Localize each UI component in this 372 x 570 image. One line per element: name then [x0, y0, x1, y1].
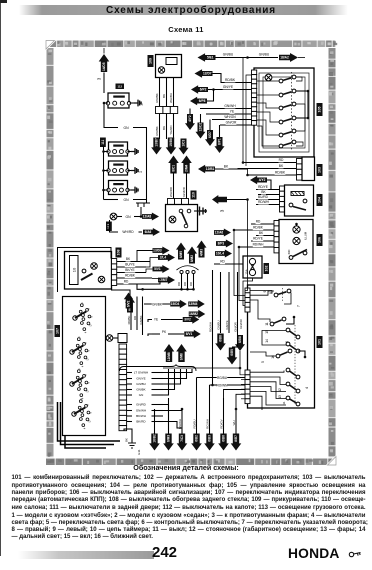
wires below connector of 109 — [159, 114, 161, 140]
wire WH/RD to dome light — [173, 174, 175, 200]
svg-text:GN/WH: GN/WH — [224, 104, 236, 108]
svg-text:D: D — [88, 324, 92, 326]
svg-text:107: 107 — [55, 328, 59, 334]
wire GN/OR — [220, 124, 252, 126]
svg-text:RD/BK: RD/BK — [155, 126, 159, 135]
label 108 — [116, 248, 122, 258]
svg-text:7/C3: 7/C3 — [180, 435, 184, 442]
svg-text:RD: RD — [189, 282, 193, 286]
svg-text:P: P — [77, 368, 81, 370]
svg-text:2/L4: 2/L4 — [160, 256, 167, 260]
inline connector of 110 — [168, 199, 175, 205]
wires from 101 lower ladder to loom verticals — [224, 390, 246, 399]
svg-text:N: N — [89, 412, 93, 414]
label 101 — [317, 336, 323, 348]
lamp 113 cargo area light — [110, 213, 117, 220]
connector arrow 8/C1 up — [168, 156, 179, 174]
ground a — [128, 151, 132, 153]
svg-text:P: P — [77, 336, 81, 338]
ground E11 — [124, 429, 132, 443]
svg-text:RD: RD — [256, 220, 261, 224]
cigarette lighter 109 — [156, 55, 182, 78]
connector arrow 4/Y2 left — [250, 176, 267, 185]
svg-text:7: 7 — [297, 305, 301, 307]
wires RD BK RD/BK to 103 — [243, 162, 296, 164]
wire YE — [206, 113, 252, 115]
wire WH/GN — [212, 119, 252, 121]
dome light 110 — [166, 205, 198, 232]
svg-text:6/B3: 6/B3 — [208, 435, 212, 442]
svg-text:BK: BK — [162, 126, 166, 130]
svg-text:12/B1: 12/B1 — [206, 167, 215, 171]
arrow 6/V2 up at 107 — [124, 293, 133, 309]
svg-text:GN/OR: GN/OR — [226, 121, 237, 125]
connector arrow 8/P1 down — [214, 137, 224, 153]
connector arrow 15/D4 right — [170, 300, 187, 309]
svg-text:12/C2: 12/C2 — [199, 123, 203, 132]
thick loom loops under 107 — [58, 402, 121, 441]
contacts of 101 lower — [286, 328, 290, 332]
svg-text:6/B2: 6/B2 — [195, 435, 199, 442]
svg-text:6/B5: 6/B5 — [230, 349, 234, 356]
ground c — [128, 189, 132, 191]
svg-text:11: 11 — [282, 401, 286, 404]
connector ladder of 108 — [112, 259, 117, 264]
junction at relay 112 input — [104, 102, 109, 104]
connector arrow 6/B8 down mid — [215, 334, 226, 351]
svg-text:D: D — [87, 420, 91, 422]
svg-text:RD/BK: RD/BK — [127, 316, 131, 325]
svg-text:RO/WH: RO/WH — [209, 322, 213, 332]
svg-text:105: 105 — [318, 107, 322, 113]
lower ladder of 101 — [245, 370, 250, 375]
svg-text:RD/GV: RD/GV — [220, 419, 224, 428]
wrap wire around 108 — [58, 248, 112, 293]
svg-text:RD/BK: RD/BK — [253, 226, 264, 230]
connector arrow 12/C2 down — [195, 123, 205, 139]
svg-text:6/M3: 6/M3 — [167, 435, 171, 442]
svg-text:6/B8: 6/B8 — [238, 336, 242, 343]
label 106 — [317, 234, 323, 246]
svg-text:12/M8: 12/M8 — [167, 352, 171, 361]
svg-text:GN/BU: GN/BU — [217, 320, 221, 329]
svg-text:RD/YE: RD/YE — [253, 237, 263, 241]
ground of dome light — [194, 210, 200, 212]
svg-text:GN/OR: GN/OR — [234, 322, 238, 331]
wire RD/BK into switch 105 — [213, 74, 253, 83]
lamp in 105 — [265, 74, 272, 81]
relay switch 112 (hood switch) — [108, 93, 129, 108]
svg-text:4/Y2: 4/Y2 — [259, 178, 266, 182]
svg-text:N: N — [87, 350, 91, 352]
svg-text:GN/WH: GN/WH — [136, 409, 146, 413]
svg-text:GN/BU: GN/BU — [136, 382, 146, 386]
svg-text:GN/BK: GN/BK — [152, 303, 163, 307]
label 110 — [191, 191, 197, 200]
connector arrow 6/D7 down — [205, 130, 215, 146]
connector arrow 12/A6 right — [214, 229, 231, 237]
svg-text:R: R — [87, 308, 91, 310]
wires into relay 104 — [256, 189, 280, 191]
inline connector under 109 — [156, 107, 163, 114]
label 107 — [55, 325, 61, 337]
wire GN/BU run — [216, 57, 248, 59]
svg-text:110: 110 — [192, 192, 196, 198]
loom verticals with labels RO/WH GN/BU GN/YE GN/OR — [212, 270, 214, 385]
svg-text:13/D3: 13/D3 — [153, 249, 162, 253]
wires into hazard switch 106 — [251, 223, 274, 225]
connector arrow 2/L4 right — [158, 254, 175, 262]
upper ladder of 101 — [245, 288, 250, 293]
svg-text:P: P — [79, 398, 83, 400]
svg-text:3: 3 — [220, 209, 225, 212]
svg-text:RD/BU: RD/BU — [193, 420, 197, 429]
svg-text:BK/YE: BK/YE — [125, 268, 134, 272]
connector arrow 13/M4 right — [188, 300, 205, 309]
gear selector illumination switch 107 — [63, 297, 106, 436]
switch contacts in 105 — [279, 79, 283, 83]
staircase stubs up to brace — [163, 369, 192, 373]
svg-text:GN/BK: GN/BK — [136, 388, 145, 392]
door switch 111 a — [109, 142, 128, 156]
svg-text:RD/WH: RD/WH — [258, 200, 269, 204]
ground b — [128, 170, 132, 172]
wires RG/BU RO/WN into 101 — [197, 377, 246, 379]
rear defogger switch 108 — [65, 252, 112, 290]
svg-text:WH/RD: WH/RD — [169, 186, 173, 197]
small connector at top of ladder — [118, 334, 127, 343]
svg-text:16/B2: 16/B2 — [153, 434, 157, 443]
svg-text:104: 104 — [318, 197, 322, 203]
svg-text:5/E1: 5/E1 — [207, 56, 214, 60]
svg-text:R: R — [86, 404, 90, 406]
connector arrow 13/B7 down — [151, 138, 162, 155]
big arrow 3 to fog lamps — [212, 195, 227, 204]
long connector ladder of 107 — [119, 344, 127, 349]
wire GN loop to door switches — [104, 103, 118, 128]
wire GN/WH — [200, 108, 252, 110]
svg-text:R: R — [84, 342, 88, 344]
svg-text:R: R — [84, 374, 88, 376]
label 113 — [106, 222, 112, 232]
connector arrow 12/D7 — [195, 69, 213, 78]
connector arrow 2/M4 up — [181, 156, 192, 174]
headlight switch 105 box — [254, 68, 314, 157]
svg-text:10/L4: 10/L4 — [216, 252, 224, 256]
svg-text:YE/RD: YE/RD — [169, 125, 173, 135]
svg-text:YE: YE — [154, 318, 158, 322]
internal wires of 101 lower — [250, 371, 284, 373]
svg-text:RD/BK: RD/BK — [275, 171, 286, 175]
svg-text:BU/RD: BU/RD — [258, 195, 269, 199]
wire GN/BK — [144, 303, 170, 305]
ground at relay 112 — [130, 102, 135, 104]
connector ladder of 105 — [252, 70, 257, 75]
svg-text:12/A8: 12/A8 — [143, 215, 152, 219]
svg-text:18/A2: 18/A2 — [280, 56, 289, 60]
connector arrow 13/D3 right — [153, 247, 170, 255]
svg-text:13/M4: 13/M4 — [189, 302, 198, 306]
svg-text:GN/RD: GN/RD — [136, 403, 147, 407]
wire to lamp 113 — [140, 211, 142, 217]
connector ladder of 104 — [280, 186, 286, 191]
svg-text:GN/BK: GN/BK — [139, 315, 143, 324]
connector arrow 4/Y2 down — [185, 114, 195, 130]
arrows and labels midleft near 107 — [183, 315, 200, 324]
svg-text:8/C1: 8/C1 — [172, 165, 176, 172]
svg-text:6/A6: 6/A6 — [145, 230, 152, 234]
svg-text:4/Y2: 4/Y2 — [188, 115, 192, 122]
svg-text:RD: RD — [220, 260, 225, 264]
svg-text:16/M2: 16/M2 — [189, 312, 198, 316]
decorative frame (not labelled further) — [46, 41, 337, 466]
connector pair symbol — [146, 200, 148, 204]
svg-text:106: 106 — [318, 237, 322, 243]
label 104 — [317, 194, 323, 206]
connector arrow 6/B5 down mid — [227, 348, 238, 365]
svg-text:BK: BK — [125, 438, 129, 442]
wires 13/D3 2/L4 to left — [137, 251, 153, 262]
left bus joining door switches — [103, 146, 105, 200]
fog lamp relay 104 — [285, 185, 314, 216]
svg-text:12/A6: 12/A6 — [215, 231, 224, 235]
wire GN/YE into switch 105 — [208, 89, 214, 91]
svg-text:E11: E11 — [137, 449, 141, 454]
svg-text:1/C3: 1/C3 — [182, 140, 186, 147]
svg-text:RD: RD — [177, 282, 181, 286]
connector arrow 12/M7 right — [158, 276, 175, 284]
svg-text:2/M4: 2/M4 — [185, 165, 189, 172]
connector arrow 16/M2 right — [189, 310, 206, 319]
svg-text:GN: GN — [125, 215, 131, 219]
connector arrow 8/P3 right — [216, 240, 233, 248]
long left-to-right bus at bottom of 101 — [163, 351, 240, 368]
wire RD to fuse — [214, 263, 243, 265]
svg-text:3: 3 — [97, 77, 102, 80]
svg-text:103: 103 — [318, 167, 322, 173]
connector arrow 19/B8 down — [166, 138, 177, 155]
svg-text:GN/OR: GN/OR — [239, 319, 243, 328]
svg-text:WH/RD: WH/RD — [122, 230, 134, 234]
svg-text:RD: RD — [133, 316, 137, 320]
wires out of 108 — [117, 261, 150, 263]
svg-text:111: 111 — [101, 140, 105, 145]
svg-text:RO/WN: RO/WN — [217, 383, 229, 387]
svg-text:6/B8: 6/B8 — [219, 335, 223, 342]
svg-text:WH/BU: WH/BU — [169, 93, 173, 103]
svg-text:D: D — [85, 390, 89, 392]
brace over gear switch wires — [120, 365, 197, 372]
wires into lower ladder of 101 — [241, 379, 245, 381]
internal wires of 105 — [257, 80, 279, 82]
svg-text:6/B6: 6/B6 — [222, 435, 226, 442]
door switch 111 b — [109, 161, 128, 175]
wire GN from 14/D5 to relay 112 — [103, 73, 105, 94]
svg-text:3/V2: 3/V2 — [184, 318, 191, 322]
lower ladder wires to bottom arrows — [163, 405, 169, 434]
door switch 111 c — [109, 181, 128, 195]
ladder output wires with labels — [127, 372, 132, 374]
connector arrow 8/M2 up — [187, 247, 197, 264]
svg-text:6/V1: 6/V1 — [186, 332, 193, 336]
svg-text:8/B7: 8/B7 — [234, 435, 238, 442]
connector arrow 5/E1 — [198, 53, 216, 62]
long vertical bus wires right side — [242, 58, 244, 163]
svg-text:GN/YE: GN/YE — [136, 377, 145, 381]
svg-text:6/V2: 6/V2 — [127, 300, 131, 307]
wire labels RD/BK RD GN/BK vertical — [130, 297, 132, 331]
svg-text:12/D7: 12/D7 — [203, 72, 212, 76]
svg-text:RC/WH: RC/WH — [206, 419, 210, 429]
connector arrow 12/A8 — [142, 213, 159, 221]
svg-text:RD/BK: RD/BK — [225, 78, 236, 82]
vertical loom wires to bottom arrows — [154, 409, 156, 434]
svg-text:GN: GN — [123, 126, 129, 130]
label 111 — [100, 138, 106, 148]
wires below 109 — [159, 78, 161, 107]
lamp at 107 connector — [106, 335, 113, 342]
svg-text:GN/YE: GN/YE — [225, 320, 229, 329]
label 105 — [317, 103, 323, 116]
svg-text:N: N — [87, 382, 91, 384]
svg-text:15/D4: 15/D4 — [171, 302, 180, 306]
svg-text:3/M8: 3/M8 — [180, 353, 184, 360]
connector arrow 10/L4 right — [215, 250, 232, 258]
svg-text:14/D5: 14/D5 — [102, 62, 106, 71]
label 109 — [148, 55, 154, 67]
svg-text:LT GN/WH: LT GN/WH — [134, 371, 148, 375]
svg-text:19/B8: 19/B8 — [169, 138, 173, 147]
connector arrow 8/V2 up — [125, 296, 135, 313]
svg-text:11: 11 — [265, 322, 269, 326]
label 112 — [116, 84, 125, 90]
svg-text:4: 4 — [305, 387, 309, 389]
fog light switch 103 — [302, 157, 315, 181]
svg-text:BK/WH: BK/WH — [136, 414, 146, 418]
svg-text:10: 10 — [71, 267, 76, 272]
svg-text:108: 108 — [117, 250, 121, 256]
svg-text:6/P8: 6/P8 — [199, 99, 206, 103]
svg-text:RD: RD — [279, 158, 284, 162]
svg-text:6/M5: 6/M5 — [179, 251, 183, 258]
connector arrow 6/M5 up — [176, 243, 186, 260]
fuse holder 102 — [243, 256, 262, 278]
svg-text:BU/YE: BU/YE — [125, 263, 135, 267]
svg-text:14: 14 — [265, 339, 269, 343]
misc connecting wires top area — [103, 48, 105, 54]
connector ladder of 106 — [274, 221, 280, 226]
connector arrow 14/D5 — [99, 54, 110, 72]
svg-text:GN: GN — [123, 198, 129, 202]
svg-text:GN/YE: GN/YE — [223, 85, 234, 89]
svg-text:ILLUM: ILLUM — [304, 231, 308, 240]
contacts of 101 middle — [270, 322, 274, 326]
svg-text:WH: WH — [232, 421, 236, 426]
wire BK — [215, 168, 248, 170]
svg-text:8/P3: 8/P3 — [218, 242, 225, 246]
svg-text:BK/RD: BK/RD — [136, 420, 146, 424]
svg-text:109: 109 — [149, 58, 153, 64]
svg-text:6/P2: 6/P2 — [200, 88, 207, 92]
connector ladder of 103 — [297, 159, 303, 164]
connector arrow 12/B1 — [198, 165, 215, 174]
svg-text:8/M2: 8/M2 — [190, 255, 194, 262]
svg-text:5: 5 — [261, 361, 265, 363]
triple RD connector fan — [177, 266, 199, 270]
svg-text:6/D7: 6/D7 — [208, 131, 212, 138]
svg-text:102: 102 — [264, 266, 268, 272]
svg-text:RD: RD — [183, 282, 187, 286]
wire LT GN/RD to dome light — [186, 174, 188, 200]
svg-text:P: P — [80, 302, 84, 304]
svg-text:RD/WH: RD/WH — [253, 243, 264, 247]
connector arrow 4/M3 up — [196, 241, 206, 258]
svg-text:GN: GN — [139, 393, 144, 397]
combination switch 101 box — [248, 285, 315, 408]
svg-text:4/M3: 4/M3 — [200, 249, 204, 256]
connector arrow 6/P8 — [190, 97, 207, 106]
svg-text:RD/BK: RD/BK — [125, 274, 136, 278]
up arrow 3/M8 — [176, 344, 187, 362]
svg-text:112: 112 — [117, 85, 122, 89]
svg-text:8/P1: 8/P1 — [218, 138, 222, 145]
svg-text:16: 16 — [271, 355, 275, 359]
bottom arrows row — [149, 434, 160, 451]
junctions right side of 105 — [296, 90, 308, 92]
svg-text:RD: RD — [124, 280, 129, 284]
svg-text:BK: BK — [162, 94, 166, 98]
svg-text:RD/YE: RD/YE — [258, 185, 268, 189]
wires from 105 ladder down-left — [246, 75, 252, 166]
svg-text:GN/BU: GN/BU — [223, 53, 234, 57]
svg-text:101: 101 — [318, 339, 322, 345]
wire WH/RD from lamp 113 — [110, 220, 119, 232]
svg-text:GN/BU: GN/BU — [259, 53, 270, 57]
label 103 — [317, 164, 323, 176]
bus wire to RD fan — [131, 284, 194, 289]
connector arrow 6/A6 — [143, 228, 160, 236]
internal wires of 101 upper — [250, 291, 272, 294]
svg-text:13/B7: 13/B7 — [155, 138, 159, 147]
svg-text:5/V1: 5/V1 — [154, 267, 161, 271]
up arrow 12/M8 — [164, 344, 175, 362]
svg-text:N: N — [90, 316, 94, 318]
svg-text:IND: IND — [287, 250, 291, 255]
label 102 — [264, 263, 270, 274]
connector arrow 1/C3 down — [178, 139, 188, 155]
connector arrow 5/V1 right — [153, 265, 170, 273]
hazard switch 106 — [279, 220, 313, 264]
svg-text:WH/GN: WH/GN — [224, 115, 236, 119]
connector arrow 6/P2 — [191, 85, 208, 94]
svg-text:RG/BU: RG/BU — [217, 376, 228, 380]
svg-text:D: D — [85, 358, 89, 360]
svg-text:RD/BK: RD/BK — [155, 93, 159, 102]
connector arrow 18/A2 — [279, 53, 298, 62]
